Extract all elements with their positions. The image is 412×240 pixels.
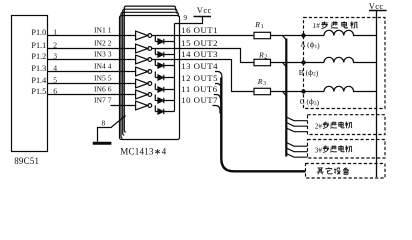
wire OUT2 down to R2: [152, 49, 254, 63]
inverter U1G: [136, 101, 148, 110]
svg-text:P1.5: P1.5: [31, 87, 46, 96]
svg-text:R: R: [258, 51, 264, 60]
svg-text:P1.3: P1.3: [31, 64, 46, 73]
wire P1.5 to IN6: [48, 94, 136, 96]
svg-text:Vcc: Vcc: [369, 1, 384, 11]
bus tap to motor2 b: [286, 123, 307, 127]
pin 8 wire to ground: [98, 116, 126, 142]
wire IN7 stub: [111, 105, 136, 107]
svg-text:8: 8: [102, 119, 106, 128]
diode D2: [155, 49, 174, 58]
svg-text:5: 5: [53, 76, 57, 85]
wire P1.0 to IN1: [48, 35, 136, 37]
svg-text:16 OUT1: 16 OUT1: [181, 25, 218, 35]
svg-text:IN1 1: IN1 1: [94, 26, 112, 35]
svg-text:9: 9: [183, 13, 187, 22]
Vcc supply (chip): [194, 16, 212, 18]
svg-text:B (ф2): B (ф2): [299, 68, 319, 78]
svg-text:1: 1: [53, 28, 57, 37]
bundle wire OUT6: [214, 95, 221, 103]
wire R1 to node A: [271, 35, 325, 37]
svg-text:IN2 2: IN2 2: [94, 39, 112, 48]
svg-text:1: 1: [261, 24, 264, 30]
bundle to other devices: [221, 78, 305, 172]
motor 3 dashed box: [308, 140, 386, 159]
inverter U1E: [136, 79, 148, 88]
svg-text:P1.4: P1.4: [31, 76, 46, 85]
svg-text:Vcc: Vcc: [197, 5, 212, 15]
svg-text:IN3 3: IN3 3: [94, 50, 112, 59]
ground: [93, 142, 112, 145]
bus tap from A: [283, 36, 287, 40]
bus tap from C: [283, 92, 287, 96]
svg-text:P1.2: P1.2: [31, 52, 46, 61]
IC MC1413 front box: [120, 16, 180, 140]
diode D4: [155, 72, 174, 81]
diode D5: [155, 84, 174, 93]
IC stack MC1413 back outline 2: [121, 12, 178, 138]
winding phase C: [324, 86, 377, 91]
svg-text:12 OUT5: 12 OUT5: [181, 73, 218, 83]
bus tap to motor2 c: [286, 128, 307, 132]
label other devices: [317, 168, 324, 174]
winding phase A: [324, 30, 377, 35]
diode D3: [155, 60, 174, 69]
svg-text:C (ф3): C (ф3): [300, 97, 320, 107]
wire P1.2 to IN3: [48, 59, 136, 61]
wire P1.1 to IN2: [48, 48, 136, 50]
inverter U1A: [136, 31, 148, 40]
node A dot: [301, 33, 305, 37]
svg-text:IN4 4: IN4 4: [94, 62, 112, 71]
bus tap to motor3 b: [286, 148, 307, 152]
pin 9 wire: [175, 17, 203, 24]
bus tap to motor3 c: [286, 154, 307, 158]
motor 1 dashed box: [304, 18, 386, 109]
resistor R1: [254, 32, 271, 38]
svg-text:3: 3: [53, 52, 57, 61]
svg-text:MC1413∗4: MC1413∗4: [120, 147, 166, 157]
node C dot: [301, 89, 305, 93]
inverter U1C: [136, 55, 148, 64]
bus tap to motor2 a: [286, 117, 307, 121]
label motor1 1# stepper motor: [313, 21, 321, 30]
wire P1.3 to IN4: [48, 71, 136, 73]
wire R2 to node B: [271, 62, 325, 64]
svg-text:15 OUT2: 15 OUT2: [181, 38, 218, 48]
Vcc rail: [376, 11, 378, 178]
bundle wire OUT5: [215, 84, 221, 92]
svg-text:IN7 7: IN7 7: [94, 96, 112, 105]
inverter U1B: [136, 44, 148, 53]
bus tap from B: [283, 63, 287, 67]
IC 89C51 box: [12, 16, 48, 152]
svg-text:13 OUT4: 13 OUT4: [181, 61, 218, 71]
diode D6: [155, 95, 174, 104]
svg-text:11 OUT6: 11 OUT6: [181, 84, 217, 94]
svg-text:P1.0: P1.0: [31, 28, 46, 37]
svg-text:R: R: [257, 77, 263, 86]
svg-text:2: 2: [53, 41, 57, 50]
svg-text:14 OUT3: 14 OUT3: [181, 49, 218, 59]
label motor3 3# stepper motor: [315, 147, 323, 155]
svg-text:2: 2: [264, 55, 267, 61]
svg-text:IN6 6: IN6 6: [94, 85, 112, 94]
bundle wire OUT7: [213, 106, 221, 114]
inverter U1F: [136, 90, 148, 99]
svg-text:10 OUT7: 10 OUT7: [181, 95, 218, 105]
wire OUT3 down to R3: [152, 60, 254, 92]
Vcc supply (motors): [369, 10, 387, 12]
inverter U1D: [136, 67, 148, 76]
svg-text:3#: 3#: [315, 147, 323, 155]
diode D7: [155, 106, 174, 115]
svg-text:IN5 5: IN5 5: [94, 74, 112, 83]
IC stack MC1413 back outline 4: [124, 6, 175, 132]
svg-text:3: 3: [263, 81, 266, 87]
motor 2 dashed box: [308, 115, 386, 135]
svg-text:89C51: 89C51: [14, 156, 39, 166]
svg-text:2#: 2#: [315, 123, 323, 131]
wire OUT1 to R1: [152, 35, 254, 37]
svg-text:P1.1: P1.1: [31, 41, 46, 50]
svg-text:R: R: [254, 20, 260, 29]
resistor R2: [254, 59, 271, 65]
node B dot: [301, 60, 305, 64]
wire P1.4 to IN5: [48, 83, 136, 85]
wire R3 to node C: [271, 91, 325, 93]
diode D1: [155, 36, 174, 45]
other devices dashed box: [306, 164, 386, 179]
bus tap to motor3 a: [286, 143, 307, 147]
svg-text:6: 6: [53, 87, 57, 96]
phase bus: [285, 39, 287, 157]
bundle wire OUT4: [215, 72, 222, 80]
resistor R3: [254, 88, 271, 94]
label motor2 2# stepper motor: [315, 123, 323, 131]
diode common rail: [174, 24, 176, 112]
winding phase B: [324, 57, 377, 62]
svg-text:1#: 1#: [313, 21, 321, 30]
svg-text:4: 4: [53, 64, 57, 73]
IC stack MC1413 back outline 3: [123, 9, 177, 135]
